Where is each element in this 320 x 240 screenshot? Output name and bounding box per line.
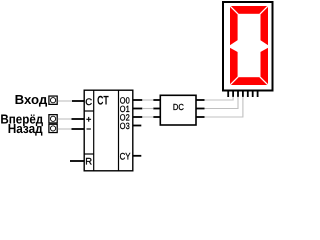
svg-text:DC: DC [173, 102, 185, 112]
svg-text:Вход: Вход [15, 92, 48, 107]
wire O0 to DC [142, 99, 153, 101]
input terminal Вперёд [49, 115, 57, 123]
CT left column divider [93, 90, 95, 171]
CT pin C stub [72, 100, 84, 102]
counter U3 (CT) box [84, 90, 133, 171]
svg-text:R: R [85, 157, 92, 168]
decoder U2 (DC) box [160, 95, 196, 125]
display pin 7 [257, 91, 259, 97]
pin label + [86, 117, 91, 122]
pin label - [87, 128, 91, 130]
CT pin R stub [70, 160, 84, 162]
display pin 5 [247, 91, 249, 97]
wire O2 to DC [142, 116, 153, 118]
unlit middle segment g (white band arrow tips) [230, 39, 239, 53]
CT pin - stub [72, 128, 85, 130]
DC output pin a [196, 99, 205, 101]
divider above R cell [84, 153, 94, 155]
CT pin + stub [72, 118, 85, 120]
segment separation diagonals [230, 6, 238, 14]
DC input pin B [153, 108, 160, 110]
DC input pin A [153, 99, 160, 101]
CT output O3 stub [133, 125, 142, 127]
DC output pin c [196, 116, 205, 118]
svg-text:CT: CT [97, 94, 109, 108]
divider below C cell [84, 110, 94, 112]
digit red block (lit segments) [230, 6, 268, 85]
CT output O0 stub [133, 99, 143, 101]
seven-segment display U1 body [223, 2, 273, 91]
input terminal Назад [49, 124, 57, 132]
display pin 1 [227, 91, 229, 97]
DC output pin b [196, 108, 205, 110]
display pin 4 [242, 91, 244, 97]
display pin 2 [232, 91, 234, 97]
display pin 6 [252, 91, 254, 97]
wire O1 to DC [142, 108, 153, 110]
CT output CY stub [133, 155, 142, 157]
wire Вход terminal to C pin [58, 100, 72, 102]
wire Назад terminal to - pin [58, 128, 72, 130]
inner window [238, 14, 261, 77]
wire Вперёд terminal to + pin [58, 118, 72, 120]
svg-text:Назад: Назад [8, 121, 44, 136]
wire DC out c to display pin 4 [205, 97, 243, 117]
wire DC out a to display pin 2 [205, 97, 234, 100]
DC input pin C [153, 116, 160, 118]
input terminal Вход [49, 96, 57, 104]
display pin 3 [237, 91, 239, 97]
CT output O2 stub [133, 116, 143, 118]
svg-text:CY: CY [120, 152, 131, 163]
svg-text:O3: O3 [120, 121, 130, 131]
CT right column divider [118, 90, 120, 171]
CT output O1 stub [133, 108, 143, 110]
wire DC out b to display pin 3 [205, 97, 239, 109]
svg-text:C: C [85, 97, 92, 108]
